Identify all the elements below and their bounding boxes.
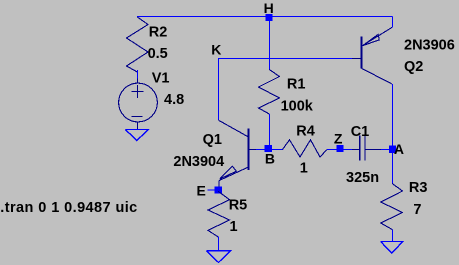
wire Q2 collector to A and R3 (392, 84, 394, 184)
wire B to R4 (272, 149, 283, 151)
wire top H rail (137, 16, 393, 18)
junction A (389, 146, 396, 153)
svg-text:R4: R4 (296, 124, 315, 140)
wire R4 to Z (327, 149, 337, 151)
ground under R5 (207, 251, 231, 263)
resistor R1 (259, 70, 280, 115)
wire B to Q1 base (256, 149, 269, 151)
junction Z (337, 145, 344, 152)
svg-text:2N3904: 2N3904 (173, 154, 224, 170)
junction H (266, 14, 273, 21)
wire R3 to ground (392, 230, 394, 242)
wire R5 to ground (218, 237, 220, 251)
svg-text:R5: R5 (229, 197, 248, 213)
svg-text:A: A (394, 141, 404, 157)
wire C1 to A (381, 149, 389, 151)
svg-text:4.8: 4.8 (164, 92, 184, 108)
resistor R2 (127, 17, 149, 72)
wire H to R1 (269, 17, 271, 71)
ground under R3 (381, 242, 403, 254)
svg-text:V1: V1 (152, 70, 170, 86)
wire R2 to V1 (137, 70, 139, 79)
svg-text:100k: 100k (281, 98, 314, 114)
ground under V1 (125, 130, 148, 141)
svg-text:Z: Z (334, 131, 343, 147)
wire E label stub (208, 189, 216, 191)
svg-text:Q2: Q2 (404, 59, 423, 75)
resistor R4 (283, 140, 328, 157)
capacitor C1 (352, 136, 381, 161)
svg-text:2N3906: 2N3906 (404, 37, 455, 53)
svg-text:1: 1 (230, 219, 238, 235)
svg-text:H: H (264, 0, 274, 16)
svg-text:E: E (197, 183, 206, 199)
transistor Q1 (219, 120, 258, 186)
svg-text:R3: R3 (409, 180, 428, 196)
transistor Q2 (352, 27, 392, 84)
wire R1 to B (269, 114, 271, 149)
svg-text:C1: C1 (351, 124, 370, 140)
svg-text:1: 1 (300, 161, 308, 177)
svg-text:7: 7 (413, 202, 421, 218)
svg-text:B: B (265, 150, 275, 166)
resistor R5 (208, 191, 230, 237)
svg-text:R1: R1 (287, 77, 306, 93)
resistor R3 (381, 184, 403, 230)
voltage source V1 (119, 78, 158, 129)
wire Q2 emitter to rail (392, 17, 394, 28)
svg-text:.tran 0 1 0.9487 uic: .tran 0 1 0.9487 uic (0, 200, 137, 216)
junction E (215, 187, 222, 194)
wire Z to C1 (344, 149, 353, 151)
wire K net (219, 59, 353, 121)
svg-text:K: K (211, 42, 221, 58)
svg-text:0.5: 0.5 (148, 46, 168, 62)
junction B (265, 145, 272, 152)
svg-text:Q1: Q1 (203, 132, 222, 148)
svg-text:R2: R2 (149, 25, 168, 41)
svg-text:325n: 325n (346, 170, 379, 186)
